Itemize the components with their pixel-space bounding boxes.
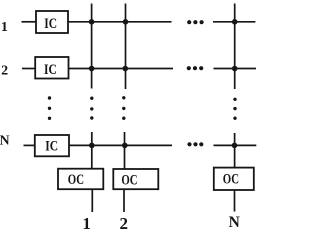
junction rowN-col1 xyxy=(89,143,95,149)
svg-text:2: 2 xyxy=(120,214,129,230)
output label "2" xyxy=(120,214,129,233)
wire row 2 horizontal bus right segment xyxy=(214,68,257,70)
wire row N horizontal bus left segment xyxy=(69,144,172,146)
svg-text:N: N xyxy=(0,133,10,148)
wire column N upper segment xyxy=(234,4,236,90)
wire row 2 horizontal bus left segment xyxy=(69,68,174,70)
wire row 1 horizontal bus right segment xyxy=(213,21,255,23)
vertical ellipsis column N xyxy=(233,98,236,120)
input coupler ICN label xyxy=(45,138,58,154)
junction row1-col1 xyxy=(89,19,95,25)
svg-text:2: 2 xyxy=(1,64,8,79)
output label "N" xyxy=(229,214,240,231)
wire column 1 lower segment xyxy=(91,132,93,170)
svg-text:IC: IC xyxy=(44,16,57,32)
svg-text:OC: OC xyxy=(121,172,137,188)
wire column 2 output stub below OC2 xyxy=(123,189,125,212)
wire column 1 output stub below OC1 xyxy=(91,189,93,212)
wire row 2 input stub xyxy=(22,68,36,70)
junction row1-col2 xyxy=(123,19,129,25)
wire column N lower segment xyxy=(234,133,236,168)
row N input label "N" xyxy=(0,133,10,148)
input coupler IC1 label xyxy=(44,16,57,32)
junction row1-colN xyxy=(232,19,238,25)
output coupler OCN box xyxy=(214,168,254,190)
junction rowN-col2 xyxy=(122,143,128,149)
output coupler OCN label xyxy=(223,172,239,188)
ellipsis row 2 xyxy=(187,66,204,70)
wire column 2 lower segment xyxy=(124,132,126,170)
svg-text:OC: OC xyxy=(68,172,84,188)
wire row N horizontal bus right segment xyxy=(214,144,257,146)
output coupler OC2 label xyxy=(121,172,137,188)
vertical ellipsis between IC rows xyxy=(48,96,51,120)
svg-text:OC: OC xyxy=(223,172,239,188)
output coupler OC1 box xyxy=(58,169,103,190)
junction rowN-colN xyxy=(232,143,238,149)
row 2 input label "2" xyxy=(1,64,8,79)
svg-text:1: 1 xyxy=(82,214,91,230)
junction row2-col2 xyxy=(123,66,129,72)
wire column 2 upper segment xyxy=(125,4,127,90)
output coupler OC1 label xyxy=(68,172,84,188)
output label "1" xyxy=(82,214,91,233)
input coupler IC2 label xyxy=(44,62,57,78)
ellipsis row N xyxy=(187,142,203,146)
wire column N output stub below OCN xyxy=(234,190,236,212)
wire row 1 horizontal bus left segment xyxy=(68,21,172,23)
vertical ellipsis column 1 xyxy=(90,97,93,120)
svg-text:N: N xyxy=(229,214,240,230)
input coupler ICN box xyxy=(35,135,69,156)
svg-text:IC: IC xyxy=(44,62,57,78)
svg-text:1: 1 xyxy=(1,20,8,35)
wire row N input stub xyxy=(24,144,36,146)
wire column 1 upper segment xyxy=(91,4,93,89)
svg-text:IC: IC xyxy=(45,138,58,154)
wire row 1 input stub xyxy=(22,21,37,23)
output coupler OC2 box xyxy=(113,169,158,189)
junction row2-col1 xyxy=(89,66,95,72)
input coupler IC1 box xyxy=(36,11,68,33)
vertical ellipsis column 2 xyxy=(122,96,125,120)
junction row2-colN xyxy=(232,66,238,72)
row 1 input label "1" xyxy=(1,20,8,35)
input coupler IC2 box xyxy=(35,57,68,79)
ellipsis row 1 xyxy=(187,20,204,24)
